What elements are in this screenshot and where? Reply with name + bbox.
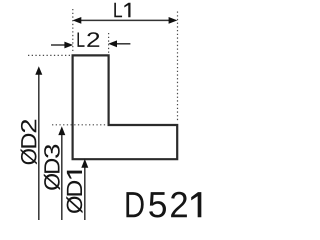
dimension line L1 (78, 19, 172, 21)
arrowhead L1 left (73, 17, 82, 24)
label D521 digit 2 (171, 192, 187, 217)
extension line left vertical (dotted) (72, 9, 74, 53)
dimension L2 left arrow (points right) (51, 44, 66, 46)
label OD3 letter D (44, 159, 59, 173)
extension line bore step horizontal (dotted) (52, 124, 107, 126)
extension line top-left horizontal (dotted) (28, 54, 71, 56)
label L1 letter L (114, 3, 122, 17)
label L1 digit 1 (124, 3, 130, 17)
label L2 letter L (77, 32, 84, 46)
label OD2 diameter sign (21, 149, 37, 165)
label D521 letter D (126, 192, 143, 217)
arrowhead OD1 (points up) (81, 159, 88, 168)
extension line right vertical (dotted) (177, 12, 179, 122)
label D521 digit 5 (149, 192, 166, 217)
label OD1 digit 1 (67, 171, 82, 179)
part outline (L-shaped flanged bushing half-section) (73, 55, 178, 159)
label OD1 diameter sign (66, 196, 82, 213)
arrowhead OD2 (points up) (35, 66, 42, 75)
dimension L2 right arrow (points left) (115, 43, 130, 45)
extension line middle vertical (dotted) (108, 33, 110, 53)
label OD3 digit 3 (44, 145, 60, 158)
label D521 digit 1 (191, 192, 201, 217)
label L2 digit 2 (87, 32, 99, 47)
dimension line OD3 (vertical) (61, 135, 63, 220)
label OD2 digit 2 (21, 120, 36, 133)
arrowhead L1 right (169, 17, 178, 24)
label OD3 diameter sign (44, 174, 60, 190)
label OD2 letter D (21, 134, 36, 148)
dimension line OD1 (vertical) (84, 167, 86, 220)
arrowhead OD3 (points up) (58, 126, 65, 135)
label OD1 letter D (67, 181, 82, 196)
dimension line OD2 (vertical) (38, 74, 40, 220)
